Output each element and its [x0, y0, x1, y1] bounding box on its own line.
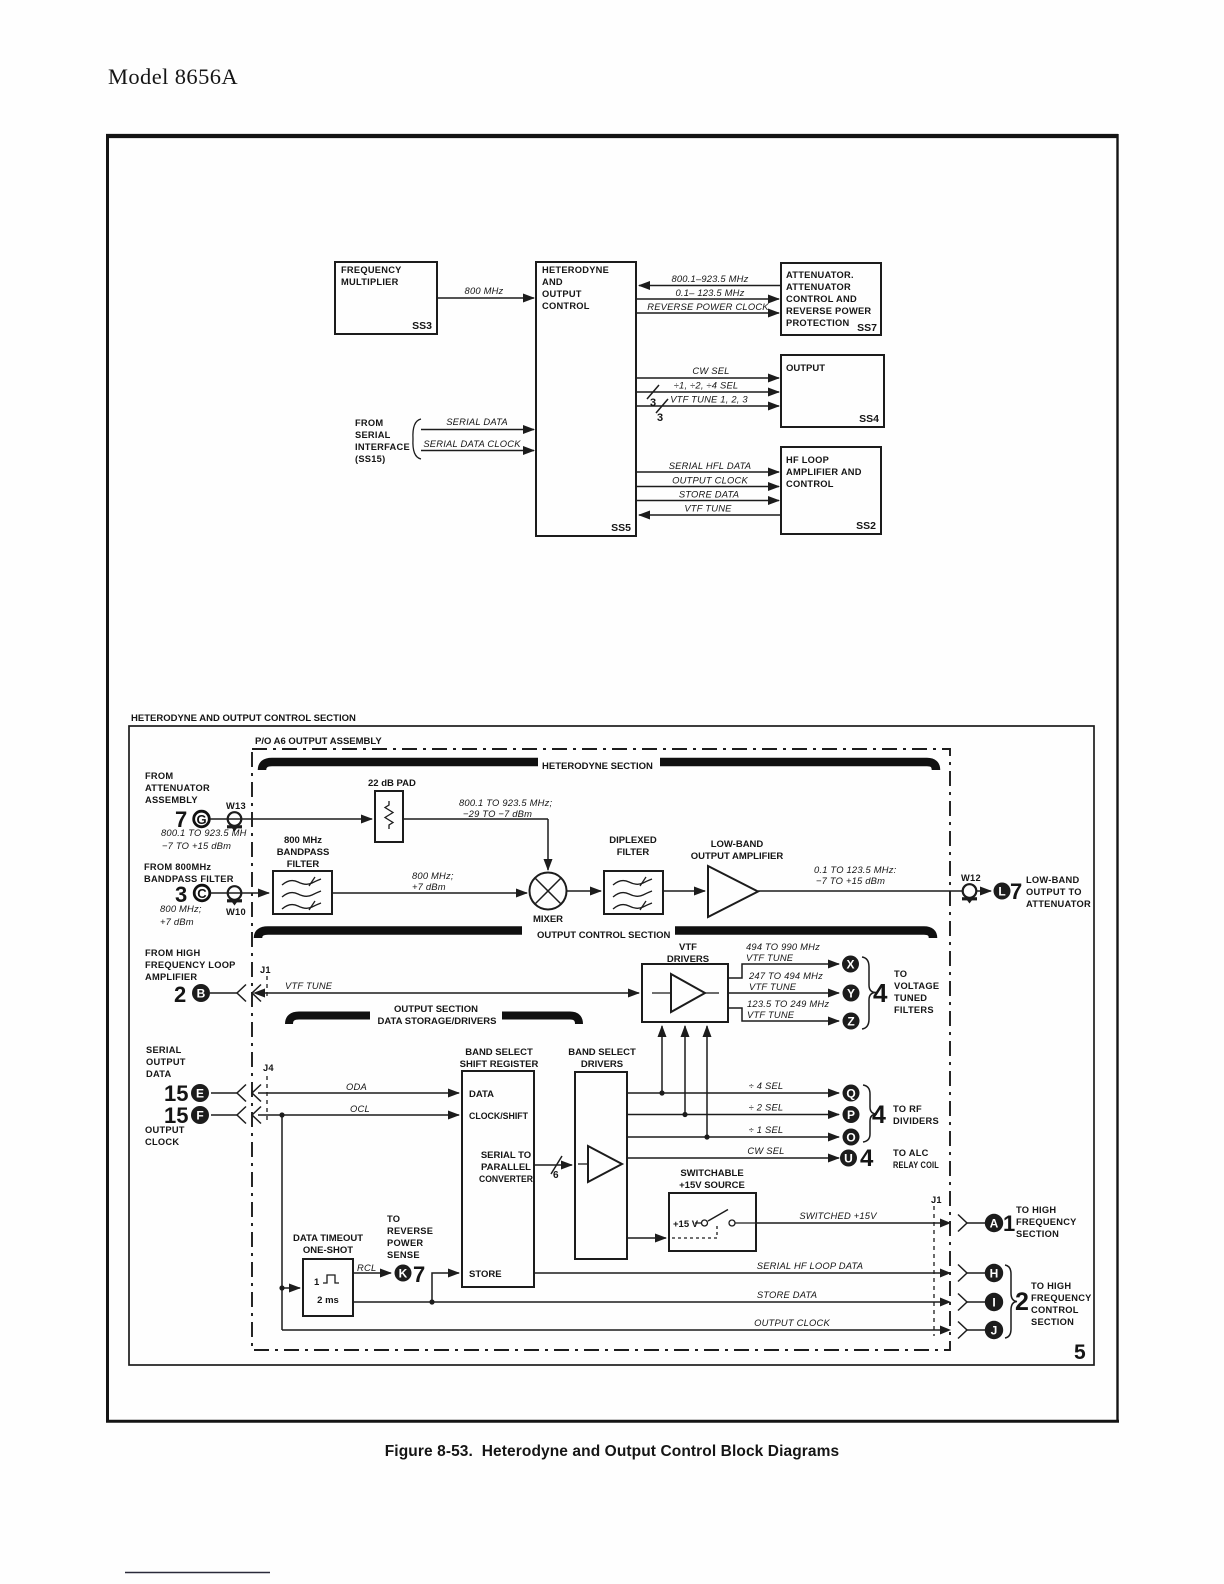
svg-text:SWITCHABLE: SWITCHABLE [680, 1168, 743, 1179]
svg-text:J: J [991, 1324, 998, 1338]
svg-text:ONE-SHOT: ONE-SHOT [303, 1245, 353, 1256]
svg-text:−7 TO +15 dBm: −7 TO +15 dBm [816, 875, 885, 886]
svg-text:800.1 TO 923.5 MHz;: 800.1 TO 923.5 MHz; [459, 797, 552, 808]
svg-text:TO RF: TO RF [893, 1104, 922, 1114]
svg-text:CONVERTER: CONVERTER [479, 1174, 533, 1185]
svg-text:DIPLEXED: DIPLEXED [609, 835, 657, 846]
svg-text:SENSE: SENSE [387, 1250, 420, 1260]
svg-text:J1: J1 [931, 1195, 942, 1205]
svg-text:OUTPUT SECTION: OUTPUT SECTION [394, 1004, 478, 1015]
svg-text:7: 7 [1010, 879, 1022, 904]
svg-text:CW SEL: CW SEL [692, 365, 729, 376]
svg-text:SHIFT REGISTER: SHIFT REGISTER [460, 1059, 539, 1070]
svg-text:VTF TUNE: VTF TUNE [746, 952, 794, 963]
svg-text:DRIVERS: DRIVERS [581, 1059, 623, 1070]
svg-text:Q: Q [846, 1087, 855, 1101]
svg-text:AMPLIFIER: AMPLIFIER [145, 972, 197, 982]
svg-text:I: I [992, 1296, 995, 1310]
svg-text:SS4: SS4 [859, 413, 879, 425]
svg-text:STORE DATA: STORE DATA [757, 1289, 817, 1300]
svg-text:F: F [196, 1109, 203, 1123]
svg-text:OUTPUT: OUTPUT [786, 363, 825, 374]
svg-text:OCL: OCL [350, 1103, 370, 1114]
svg-text:−7 TO +15 dBm: −7 TO +15 dBm [162, 840, 231, 851]
svg-text:SERIAL HFL DATA: SERIAL HFL DATA [669, 460, 752, 471]
svg-text:2 ms: 2 ms [317, 1295, 339, 1306]
svg-text:HETERODYNE AND OUTPUT CONTROL: HETERODYNE AND OUTPUT CONTROL SECTION [131, 713, 356, 724]
svg-text:DATA: DATA [469, 1089, 494, 1100]
svg-text:SS2: SS2 [856, 520, 876, 532]
svg-text:PARALLEL: PARALLEL [481, 1162, 531, 1173]
svg-text:800 MHz;: 800 MHz; [160, 903, 202, 914]
svg-text:VTF TUNE: VTF TUNE [684, 503, 732, 514]
svg-text:SWITCHED +15V: SWITCHED +15V [799, 1210, 877, 1221]
svg-text:FROM: FROM [145, 771, 173, 781]
svg-text:(SS15): (SS15) [355, 454, 385, 464]
svg-text:CONTROL: CONTROL [786, 479, 834, 489]
svg-text:247 TO 494 MHz: 247 TO 494 MHz [748, 970, 823, 981]
svg-text:4: 4 [873, 978, 888, 1008]
svg-text:W12: W12 [961, 873, 981, 883]
svg-text:CLOCK/SHIFT: CLOCK/SHIFT [469, 1111, 528, 1122]
svg-text:OUTPUT AMPLIFIER: OUTPUT AMPLIFIER [691, 851, 784, 862]
svg-text:OUTPUT CLOCK: OUTPUT CLOCK [672, 475, 748, 486]
svg-text:DATA TIMEOUT: DATA TIMEOUT [293, 1233, 363, 1244]
svg-text:CW SEL: CW SEL [747, 1145, 784, 1156]
svg-text:SS3: SS3 [412, 320, 432, 332]
svg-text:W10: W10 [226, 907, 246, 917]
svg-text:6: 6 [553, 1170, 559, 1181]
svg-text:1: 1 [1003, 1211, 1015, 1236]
svg-text:SERIAL TO: SERIAL TO [481, 1150, 531, 1161]
svg-text:SS5: SS5 [611, 522, 631, 534]
svg-text:SERIAL DATA CLOCK: SERIAL DATA CLOCK [423, 438, 521, 449]
svg-text:BANDPASS FILTER: BANDPASS FILTER [144, 874, 234, 884]
svg-text:FROM 800MHz: FROM 800MHz [144, 862, 211, 872]
svg-text:DIVIDERS: DIVIDERS [893, 1116, 939, 1126]
svg-text:K: K [399, 1267, 408, 1281]
svg-text:J4: J4 [263, 1063, 274, 1073]
svg-text:P/O A6 OUTPUT ASSEMBLY: P/O A6 OUTPUT ASSEMBLY [255, 736, 382, 747]
svg-text:W13: W13 [226, 801, 246, 811]
svg-text:+7 dBm: +7 dBm [412, 881, 446, 892]
svg-text:7: 7 [413, 1262, 425, 1287]
svg-text:OUTPUT: OUTPUT [145, 1125, 185, 1135]
svg-text:OUTPUT CONTROL SECTION: OUTPUT CONTROL SECTION [537, 930, 670, 941]
svg-text:4: 4 [872, 1101, 886, 1129]
svg-text:÷1, ÷2, ÷4 SEL: ÷1, ÷2, ÷4 SEL [674, 380, 739, 391]
svg-text:AMPLIFIER AND: AMPLIFIER AND [786, 467, 862, 477]
svg-text:VTF TUNE: VTF TUNE [749, 981, 797, 992]
svg-text:SERIAL: SERIAL [146, 1045, 182, 1055]
svg-text:123.5 TO 249 MHz: 123.5 TO 249 MHz [747, 998, 829, 1009]
svg-text:ATTENUATOR.: ATTENUATOR. [786, 270, 854, 280]
svg-text:REVERSE POWER CLOCK: REVERSE POWER CLOCK [647, 301, 769, 312]
svg-text:O: O [846, 1131, 855, 1145]
svg-text:DATA: DATA [146, 1069, 171, 1079]
svg-text:SECTION: SECTION [1016, 1229, 1059, 1239]
svg-text:800.1–923.5 MHz: 800.1–923.5 MHz [671, 273, 748, 284]
svg-text:ATTENUATOR: ATTENUATOR [1026, 899, 1091, 909]
svg-text:−29 TO −7 dBm: −29 TO −7 dBm [463, 808, 532, 819]
svg-text:POWER: POWER [387, 1238, 423, 1248]
svg-text:BANDPASS: BANDPASS [277, 847, 330, 858]
svg-text:5: 5 [1074, 1341, 1086, 1364]
svg-text:CONTROL AND: CONTROL AND [786, 294, 857, 304]
svg-text:+15V SOURCE: +15V SOURCE [679, 1180, 745, 1191]
svg-text:+7 dBm: +7 dBm [160, 916, 194, 927]
svg-text:FILTER: FILTER [287, 859, 320, 870]
svg-text:J1: J1 [260, 965, 271, 975]
svg-text:SECTION: SECTION [1031, 1317, 1074, 1327]
svg-text:STORE: STORE [469, 1269, 502, 1280]
svg-text:FILTERS: FILTERS [894, 1005, 934, 1015]
svg-text:BAND SELECT: BAND SELECT [465, 1047, 533, 1058]
svg-text:800 MHz: 800 MHz [465, 285, 504, 296]
svg-text:B: B [197, 987, 206, 1001]
svg-text:VOLTAGE: VOLTAGE [894, 981, 939, 991]
svg-text:PROTECTION: PROTECTION [786, 318, 849, 328]
svg-text:P: P [847, 1108, 855, 1122]
svg-text:OUTPUT TO: OUTPUT TO [1026, 887, 1082, 897]
svg-text:0.1 TO 123.5 MHz:: 0.1 TO 123.5 MHz: [814, 864, 897, 875]
svg-text:RCL: RCL [357, 1262, 376, 1273]
svg-text:LOW-BAND: LOW-BAND [711, 839, 764, 850]
svg-text:LOW-BAND: LOW-BAND [1026, 875, 1079, 885]
svg-text:2: 2 [174, 982, 186, 1007]
svg-text:CONTROL: CONTROL [542, 301, 590, 311]
svg-text:FREQUENCY: FREQUENCY [341, 265, 402, 275]
svg-text:AND: AND [542, 277, 563, 287]
svg-text:÷ 2 SEL: ÷ 2 SEL [749, 1102, 784, 1113]
svg-text:FROM HIGH: FROM HIGH [145, 948, 200, 958]
svg-text:2: 2 [1015, 1288, 1029, 1316]
svg-text:BAND SELECT: BAND SELECT [568, 1047, 636, 1058]
svg-text:A: A [990, 1217, 999, 1231]
svg-text:4: 4 [860, 1145, 874, 1172]
svg-text:0.1– 123.5 MHz: 0.1– 123.5 MHz [676, 287, 745, 298]
svg-text:HETERODYNE SECTION: HETERODYNE SECTION [542, 761, 653, 772]
svg-text:REVERSE POWER: REVERSE POWER [786, 306, 871, 316]
svg-text:RELAY COIL: RELAY COIL [893, 1160, 939, 1170]
svg-text:MULTIPLIER: MULTIPLIER [341, 277, 399, 287]
svg-text:C: C [197, 886, 207, 901]
svg-text:800 MHz: 800 MHz [284, 835, 322, 846]
svg-text:MIXER: MIXER [533, 914, 563, 925]
svg-text:OUTPUT: OUTPUT [542, 289, 582, 299]
svg-text:SS7: SS7 [857, 322, 877, 334]
svg-text:ATTENUATOR: ATTENUATOR [145, 783, 210, 793]
svg-text:TO: TO [387, 1214, 400, 1224]
svg-text:ATTENUATOR: ATTENUATOR [786, 282, 851, 292]
svg-text:CONTROL: CONTROL [1031, 1305, 1079, 1315]
svg-text:Figure 8-53. Heterodyne and O: Figure 8-53. Heterodyne and Output Contr… [385, 1443, 840, 1460]
svg-text:L: L [998, 885, 1005, 899]
svg-text:÷ 4 SEL: ÷ 4 SEL [749, 1080, 784, 1091]
svg-text:E: E [196, 1087, 204, 1101]
svg-text:FREQUENCY: FREQUENCY [1016, 1217, 1077, 1227]
svg-text:VTF TUNE 1, 2, 3: VTF TUNE 1, 2, 3 [670, 394, 748, 405]
svg-text:3: 3 [650, 397, 656, 409]
svg-text:FREQUENCY LOOP: FREQUENCY LOOP [145, 960, 236, 970]
svg-text:G: G [196, 812, 206, 827]
svg-text:DATA STORAGE/DRIVERS: DATA STORAGE/DRIVERS [378, 1016, 497, 1027]
svg-text:VTF TUNE: VTF TUNE [747, 1009, 795, 1020]
svg-text:Z: Z [847, 1015, 854, 1029]
svg-text:Model 8656A: Model 8656A [108, 64, 238, 89]
svg-text:CLOCK: CLOCK [145, 1137, 179, 1147]
svg-text:TO ALC: TO ALC [893, 1148, 929, 1158]
svg-text:HETERODYNE: HETERODYNE [542, 265, 609, 275]
svg-text:TUNED: TUNED [894, 993, 927, 1003]
svg-text:22 dB PAD: 22 dB PAD [368, 778, 416, 789]
svg-text:H: H [990, 1267, 999, 1281]
svg-text:÷ 1 SEL: ÷ 1 SEL [749, 1124, 784, 1135]
svg-text:REVERSE: REVERSE [387, 1226, 433, 1236]
svg-text:X: X [846, 958, 854, 972]
svg-text:FILTER: FILTER [617, 847, 650, 858]
svg-text:SERIAL HF LOOP DATA: SERIAL HF LOOP DATA [757, 1260, 863, 1271]
svg-text:VTF TUNE: VTF TUNE [285, 980, 333, 991]
svg-text:STORE DATA: STORE DATA [679, 489, 739, 500]
svg-text:TO: TO [894, 969, 907, 979]
svg-text:SERIAL: SERIAL [355, 430, 391, 440]
svg-text:SERIAL DATA: SERIAL DATA [446, 416, 508, 427]
svg-text:OUTPUT CLOCK: OUTPUT CLOCK [754, 1317, 830, 1328]
svg-text:+15 V: +15 V [673, 1219, 699, 1230]
svg-text:800 MHz;: 800 MHz; [412, 870, 454, 881]
svg-text:VTF: VTF [679, 942, 697, 953]
svg-text:494 TO 990 MHz: 494 TO 990 MHz [746, 941, 820, 952]
svg-text:OUTPUT: OUTPUT [146, 1057, 186, 1067]
svg-text:TO HIGH: TO HIGH [1031, 1281, 1071, 1291]
svg-text:TO HIGH: TO HIGH [1016, 1205, 1056, 1215]
svg-text:INTERFACE: INTERFACE [355, 442, 410, 452]
svg-text:HF LOOP: HF LOOP [786, 455, 829, 465]
svg-text:ASSEMBLY: ASSEMBLY [145, 795, 198, 805]
svg-text:1: 1 [314, 1277, 320, 1288]
svg-text:FROM: FROM [355, 418, 383, 428]
svg-text:U: U [844, 1152, 853, 1166]
svg-text:FREQUENCY: FREQUENCY [1031, 1293, 1092, 1303]
svg-text:ODA: ODA [346, 1081, 367, 1092]
svg-text:Y: Y [847, 987, 855, 1001]
svg-text:3: 3 [657, 412, 663, 424]
